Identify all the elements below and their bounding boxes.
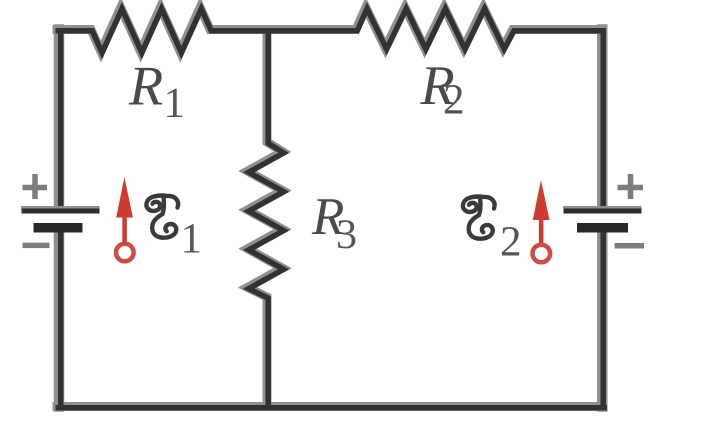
battery B2 short plate [577,223,628,233]
wire dark layer [58,9,604,408]
resistor R3 with middle wire [249,31,284,408]
battery B1 short plate [34,223,83,233]
svg-text:2: 2 [443,77,465,124]
battery B2 long plate [563,206,642,214]
wire bottom [58,405,604,411]
wire left lower [58,231,64,408]
svg-text:1: 1 [163,80,185,127]
battery B2 minus sign [615,243,645,249]
svg-text:R: R [128,55,163,117]
emf source arrow E1 [116,177,134,261]
svg-text:3: 3 [336,212,357,258]
svg-text:2: 2 [500,219,522,266]
wire right upper [600,31,606,209]
wire gray underlay [57,8,603,407]
label R1 [128,55,185,127]
label script-E 1 [146,196,202,263]
battery B1 plus sign [23,174,48,199]
battery B1 long plate [21,206,100,214]
svg-text:1: 1 [180,216,202,263]
label script-E 2 [463,197,522,266]
emf source arrow E2 [533,180,551,262]
battery B2 plus sign [618,174,644,199]
label R2 [419,55,464,124]
battery B1 minus sign [23,243,50,249]
resistor R1 [58,9,268,53]
wire left upper [58,31,64,209]
resistor R2 [268,9,603,50]
wire right lower [600,231,606,408]
label R3 [311,188,357,258]
